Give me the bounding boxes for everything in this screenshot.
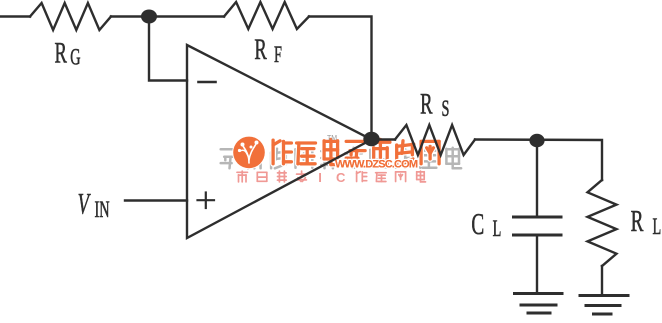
svg-text:R: R xyxy=(420,88,433,120)
svg-text:C: C xyxy=(336,170,346,185)
svg-text:R: R xyxy=(254,34,267,66)
svg-text:I: I xyxy=(318,170,322,185)
svg-text:S: S xyxy=(442,97,450,122)
svg-text:IN: IN xyxy=(95,198,110,223)
svg-text:L: L xyxy=(493,217,502,242)
svg-text:F: F xyxy=(274,43,282,68)
svg-text:C: C xyxy=(471,206,484,241)
svg-text:G: G xyxy=(70,45,80,70)
svg-text:WWW.DZSC.COM: WWW.DZSC.COM xyxy=(335,159,418,171)
svg-text:L: L xyxy=(653,215,662,240)
svg-text:R: R xyxy=(631,203,644,238)
svg-text:TM: TM xyxy=(327,135,337,142)
svg-text:R: R xyxy=(55,37,68,69)
